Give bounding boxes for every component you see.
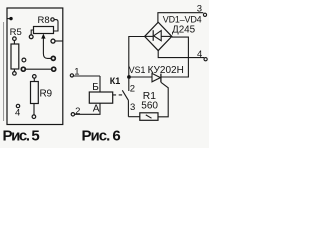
free post <box>22 58 26 62</box>
terminal 3 <box>197 4 207 17</box>
relay coil K1 <box>89 92 112 103</box>
switch K1 contact <box>122 79 129 117</box>
svg-text:4: 4 <box>197 49 202 60</box>
R8 wiper arrow <box>43 38 51 59</box>
svg-text:R5: R5 <box>10 27 22 38</box>
diode bridge VD1-VD4 <box>145 22 172 50</box>
potentiometer R8 <box>29 18 58 61</box>
svg-text:R8: R8 <box>38 15 50 26</box>
svg-text:А: А <box>93 103 100 114</box>
svg-text:К1: К1 <box>110 76 121 86</box>
svg-text:3: 3 <box>130 102 135 113</box>
wire bridge top to terminal 3 <box>158 13 203 23</box>
post with wire to board edge <box>51 39 63 43</box>
svg-text:VD1–VD4: VD1–VD4 <box>163 15 202 25</box>
terminal 1 <box>70 67 100 78</box>
resistor R1 <box>128 113 158 121</box>
svg-text:Рис. 6: Рис. 6 <box>82 127 121 144</box>
svg-text:2: 2 <box>130 83 135 94</box>
wire bridge-left to junction <box>129 37 145 76</box>
scan artifact vertical line <box>3 22 5 121</box>
wire bridge bottom to terminal 4 <box>158 51 204 58</box>
VS1 gate lead <box>158 82 168 116</box>
wire with two posts <box>21 67 55 71</box>
svg-text:560: 560 <box>141 101 158 112</box>
thyristor VS1 <box>131 73 168 116</box>
svg-text:R9: R9 <box>40 89 53 100</box>
terminal 4 <box>197 49 207 61</box>
board outline (Fig.5 module) <box>7 8 63 125</box>
svg-text:VS1: VS1 <box>129 65 146 75</box>
mechanical link (dashed) <box>113 94 123 96</box>
junction node <box>127 75 131 79</box>
svg-text:2: 2 <box>75 106 80 117</box>
wire bridge right to thyristor cathode <box>161 37 188 77</box>
resistor R9 <box>31 75 39 119</box>
wire into relay coil <box>99 76 101 92</box>
svg-text:Д245: Д245 <box>172 25 196 36</box>
resistor R5 <box>11 37 19 75</box>
wire from coil to terminal 2 <box>75 103 100 114</box>
terminal 4 of board <box>15 104 20 118</box>
bridge diode symbol <box>152 30 154 41</box>
terminal 2 <box>71 106 80 117</box>
svg-text:Рис. 5: Рис. 5 <box>3 127 40 144</box>
svg-text:3: 3 <box>197 4 202 15</box>
terminal post on left border <box>8 17 13 20</box>
svg-text:4: 4 <box>15 108 20 119</box>
